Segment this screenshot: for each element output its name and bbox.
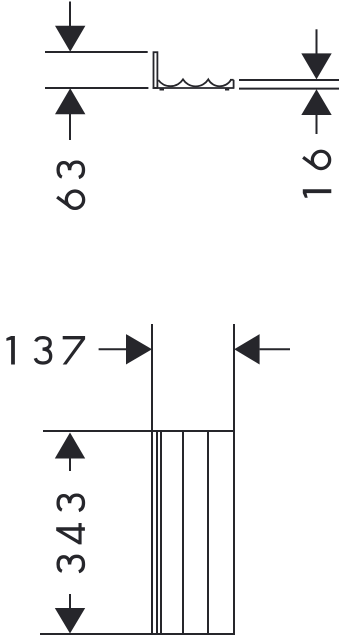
dimension 63 lower leader line <box>69 114 71 140</box>
plan view line trough start <box>160 432 162 633</box>
profile base top flat <box>230 79 234 81</box>
label 137 digit 7 <box>63 336 85 365</box>
plan view line crest 1 <box>182 432 184 633</box>
profile right foot <box>225 89 229 91</box>
dimension 63 top arrow (down) <box>55 26 85 52</box>
dimension 343 upper leader line <box>69 459 71 472</box>
profile base right edge <box>233 80 235 88</box>
profile left foot <box>160 89 165 91</box>
dimension 63 top extension line <box>45 51 148 53</box>
label 343 digit 3 (bottom) <box>58 556 83 571</box>
dimension 16 bottom extension line <box>239 88 339 90</box>
label 16 digit 1 <box>303 189 332 198</box>
dimension 16 lower leader line <box>316 115 318 134</box>
dimension 343 bottom extension line <box>40 633 152 635</box>
label 137 digit 1 <box>6 336 15 365</box>
dimension 137 right arrow (left) <box>234 334 259 364</box>
dimension 63 upper leader line <box>69 2 71 28</box>
plan view line wall inner edge <box>156 432 158 633</box>
dimension 16 top extension line <box>239 79 339 81</box>
profile wall <box>154 52 158 88</box>
plan view rectangle <box>152 431 234 634</box>
dimension 63 bottom arrow (up) <box>55 88 85 114</box>
profile wavy top surface <box>158 79 231 86</box>
dimension 137 right extension line <box>233 324 235 430</box>
dimension 343 top extension line <box>43 430 152 432</box>
label 16 digit 6 <box>303 151 330 168</box>
dimension 137 right leader line <box>260 348 290 350</box>
dimension 16 upper leader line <box>316 29 318 54</box>
dimension 343 top arrow (up) <box>55 433 85 459</box>
dimension 137 left arrow (right) <box>126 334 152 364</box>
label 63 digit 6 <box>57 191 84 208</box>
label 137 digit 3 <box>35 338 50 363</box>
dimension 63 bottom extension line <box>45 87 148 89</box>
dimension 343 bottom arrow (down) <box>55 608 85 634</box>
label 343 digit 3 (top) <box>58 495 83 510</box>
dimension 137 left extension line <box>151 324 153 430</box>
dimension 16 bottom arrow (up) <box>301 89 331 115</box>
label 63 digit 3 <box>58 162 83 177</box>
dimension 16 top arrow (down) <box>301 53 331 79</box>
plan view line crest 2 <box>207 432 209 633</box>
label 343 digit 4 <box>56 523 85 544</box>
dimension 343 lower leader line <box>69 594 71 608</box>
profile base bottom line <box>153 87 235 89</box>
dimension 137 left leader line <box>99 348 126 350</box>
